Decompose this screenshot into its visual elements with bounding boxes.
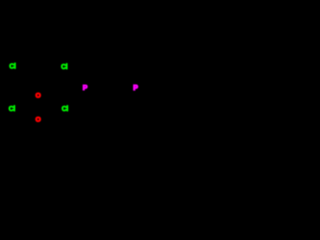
svg-text:Cl: Cl: [9, 63, 16, 70]
svg-text:O: O: [36, 93, 41, 100]
svg-text:O: O: [36, 117, 41, 124]
svg-text:Cl: Cl: [9, 106, 16, 113]
svg-text:Cl: Cl: [61, 64, 68, 71]
svg-text:P: P: [83, 85, 88, 92]
svg-text:P: P: [133, 85, 138, 92]
svg-text:Cl: Cl: [62, 106, 69, 113]
